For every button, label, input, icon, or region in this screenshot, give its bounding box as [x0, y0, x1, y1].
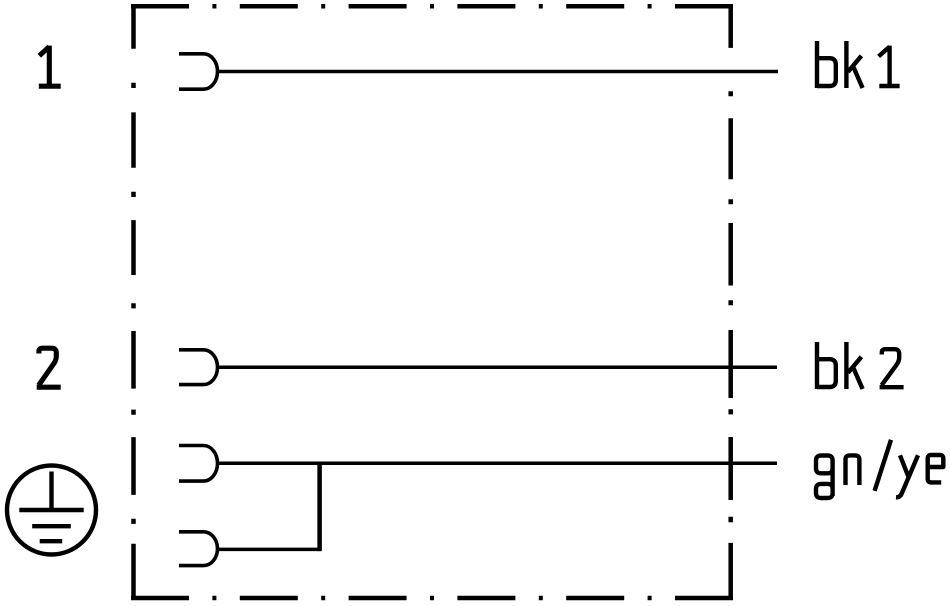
- glyph y: [896, 455, 918, 497]
- glyph 2 (label): [880, 349, 904, 387]
- glyph g: [816, 456, 833, 499]
- contact pin 4 / PE (socket contact): [179, 532, 217, 566]
- glyph 1 (label): [879, 46, 900, 86]
- contact pin 3 (socket contact): [179, 446, 218, 482]
- glyph b: [817, 342, 836, 389]
- glyph e: [928, 455, 944, 482]
- pin label 1: [39, 46, 61, 87]
- protective earth symbol ground strokes: [19, 472, 83, 542]
- glyph /: [875, 440, 891, 491]
- glyph k: [846, 342, 862, 389]
- contact pin 2 (socket contact): [179, 350, 218, 385]
- housing outline bottom edge (dash-dot): [131, 596, 733, 601]
- housing outline left edge (dash-dot): [131, 4, 136, 600]
- glyph b: [817, 41, 836, 88]
- label bk 2: [817, 342, 904, 389]
- glyph k: [846, 41, 862, 88]
- label bk 1: [817, 41, 900, 88]
- wire junction link pin3-pin4: [317, 462, 322, 551]
- protective earth symbol (circle): [7, 466, 96, 555]
- housing outline top edge (dash-dot): [131, 4, 733, 9]
- label gn/ye: [816, 440, 943, 498]
- wire gn/ye: [217, 462, 777, 466]
- wire bk1: [217, 70, 778, 74]
- pin label 2: [37, 348, 61, 387]
- contact pin 1 (socket contact): [179, 54, 217, 89]
- wire bk2: [217, 365, 777, 369]
- wire pin4 to junction: [217, 548, 319, 552]
- housing outline right edge (dash-dot): [728, 4, 733, 600]
- glyph n: [846, 455, 860, 485]
